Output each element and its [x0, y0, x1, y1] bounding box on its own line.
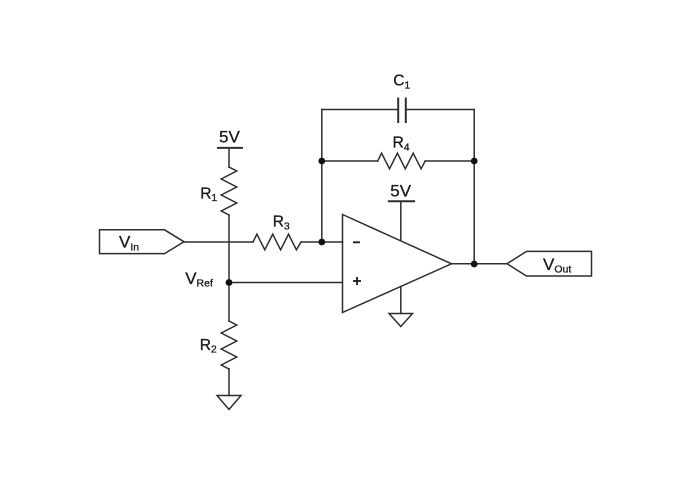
wire node A up to feedback [321, 110, 323, 243]
resistor R3 [253, 234, 301, 250]
supply 5V bar (op-amp) [389, 200, 414, 202]
wire output [452, 263, 508, 265]
svg-text:C1: C1 [393, 73, 410, 92]
plus sign (non-inverting input) [353, 280, 361, 282]
svg-text:VOut: VOut [543, 255, 571, 276]
minus sign (inverting input) [353, 241, 360, 243]
junction VRef node [226, 279, 233, 286]
net flag VOut [507, 251, 592, 276]
junction node A [318, 239, 325, 246]
wire R2 to ground [228, 369, 230, 396]
svg-text:VIn: VIn [119, 233, 139, 254]
wire VRef to R2 [228, 283, 230, 322]
ground (below op-amp) [389, 314, 413, 327]
wire VRef to op-amp + [229, 282, 343, 284]
wire C1 left [322, 109, 398, 111]
wire R4 left [322, 160, 378, 162]
capacitor C1 [397, 99, 399, 123]
wire VIn to R3 [184, 241, 253, 243]
svg-text:5V: 5V [219, 127, 240, 146]
svg-text:R2: R2 [200, 337, 217, 356]
svg-text:5V: 5V [390, 181, 411, 200]
wire 5V to R1 [228, 148, 230, 167]
resistor R1 [221, 167, 237, 215]
wire 5V to op-amp [400, 202, 402, 241]
junction node feedback left [318, 158, 325, 165]
junction node feedback right [471, 158, 478, 165]
svg-text:VRef: VRef [185, 269, 213, 290]
wire R4 right [425, 160, 474, 162]
junction output node [471, 261, 478, 268]
resistor R2 [221, 321, 237, 369]
wire R1 to VRef node [228, 215, 230, 283]
svg-text:R4: R4 [393, 135, 410, 154]
svg-text:R1: R1 [200, 186, 217, 205]
wire R3 to node A [301, 241, 343, 243]
net flag VIn [100, 230, 185, 254]
wire C1 right [406, 109, 474, 111]
wire op-amp to ground [400, 287, 402, 314]
resistor R4 [378, 153, 426, 169]
op-amp U1 [343, 215, 452, 313]
ground (below R2) [217, 396, 241, 410]
supply 5V bar (left) [218, 147, 242, 149]
wire right vertical to output node [473, 110, 475, 265]
svg-text:R3: R3 [273, 214, 290, 233]
